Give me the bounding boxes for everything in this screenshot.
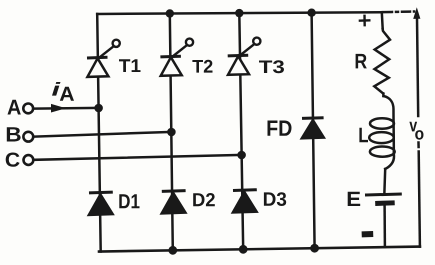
current arrow iA [51,104,66,113]
wire column 1 (T1/D1 leg) [97,14,101,252]
diode D1 [88,192,114,215]
diode D3 [232,190,258,213]
diode D2 [161,191,187,214]
wire phase B lead [35,132,172,137]
plus sign [359,15,371,27]
vo arrow head [413,7,420,19]
thyristor T2 [160,39,193,76]
inductor L [369,96,394,169]
label D3 [264,192,286,206]
node B junction [167,128,176,137]
node bottom bus D3 [239,245,248,254]
label T1 [119,59,141,72]
label D1 [119,194,139,208]
thyristor T3 [228,38,261,75]
label A [8,100,21,115]
label vo subscript o [415,130,423,140]
label E [348,192,361,206]
label C [6,153,20,167]
label iA subscript A [60,87,74,101]
wire E to bottom bus [383,206,386,247]
node top bus T3 [235,9,243,17]
label FD [268,121,292,136]
wire column 3 (T3/D3 leg) [239,13,243,250]
label T3 [259,60,284,73]
battery E short plate [378,200,393,206]
terminal A [23,104,33,114]
wire top bus [97,12,382,14]
label vo symbol v [409,122,417,132]
label B [7,127,21,141]
wire R to L [382,94,385,97]
minus sign [362,231,374,237]
node top bus T2 [166,9,174,17]
wire top bus dashed segment to vo arrow [384,10,414,13]
wire vo measurement line upper [417,18,418,117]
thyristor T1 [87,40,120,77]
wire FD leg [312,12,315,249]
terminal B [23,132,33,142]
wire column 2 (T2/D2 leg) [170,13,173,250]
battery E long plate [367,194,401,195]
label iA current symbol i [52,82,61,96]
terminal C [24,155,34,165]
label L [359,128,368,143]
wire load stub from top bus [381,12,384,29]
wire phase A lead [35,107,99,110]
node A junction [94,104,103,113]
wire vo measurement line dash below label [417,143,420,148]
node top bus FD [307,9,315,17]
freewheeling diode FD [301,118,325,139]
label D2 [193,193,215,206]
node bottom bus D2 [168,246,177,255]
label R [356,54,367,69]
resistor R [374,29,390,94]
label T2 [192,60,212,73]
wire vo measurement line lower [419,152,420,247]
node C junction [237,151,246,160]
node bottom bus FD [310,244,319,253]
wire phase C lead [35,155,242,160]
wire bottom bus [99,247,420,252]
wire L to E [383,169,386,193]
